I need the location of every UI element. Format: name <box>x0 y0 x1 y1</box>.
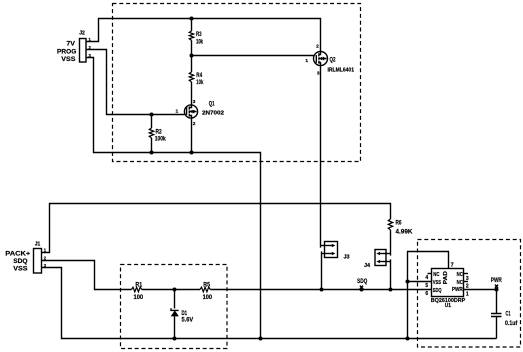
svg-text:PROG: PROG <box>57 48 76 55</box>
svg-text:R3: R3 <box>196 31 202 38</box>
wire D1 bottom <box>174 316 176 338</box>
svg-text:1: 1 <box>466 291 469 297</box>
resistor R3 <box>189 31 193 40</box>
svg-text:J4: J4 <box>364 263 371 269</box>
dashed box top section <box>113 4 361 162</box>
wire J2 pin3 to bottom rail to VSS drop <box>86 58 261 339</box>
wire R1 to R5 <box>142 289 200 291</box>
wire R2 bottom <box>151 138 153 153</box>
svg-text:4: 4 <box>425 275 428 281</box>
svg-text:PWR: PWR <box>491 277 502 284</box>
dashed box U1 section <box>418 240 521 348</box>
svg-text:D1: D1 <box>182 311 188 317</box>
svg-text:Q1: Q1 <box>209 102 215 108</box>
svg-text:7: 7 <box>451 262 454 268</box>
wire C1 to VSS bus <box>496 317 498 339</box>
svg-text:100: 100 <box>134 294 144 301</box>
wire U1 pin1 PWR to C1 <box>464 290 497 314</box>
resistor R5 <box>200 287 210 292</box>
svg-text:PACK+: PACK+ <box>5 250 30 257</box>
svg-text:5.6V: 5.6V <box>182 318 194 324</box>
connector J3 <box>321 242 338 258</box>
resistor R6 <box>388 219 392 230</box>
wire J1 pin2 to SDQ rail <box>42 261 132 290</box>
transistor Q1 <box>184 105 197 118</box>
svg-text:3: 3 <box>193 99 196 105</box>
svg-text:NC: NC <box>433 272 439 278</box>
diode D1 zener <box>171 308 179 316</box>
transistor Q2 <box>314 52 328 66</box>
resistor R4 <box>189 72 193 82</box>
svg-text:J3: J3 <box>344 255 350 261</box>
wire node to R4 <box>191 56 193 73</box>
svg-text:U1: U1 <box>445 303 451 309</box>
connector J4 <box>375 250 391 266</box>
node top bus R3 <box>190 17 194 21</box>
connector J1 <box>34 249 42 274</box>
resistor R2 <box>149 128 153 138</box>
node Q1 gate R2 <box>150 113 154 117</box>
wire D1 top <box>174 290 176 309</box>
U1 pin3 stub <box>464 273 469 275</box>
dashed box D1 section <box>121 265 228 349</box>
node J3 SDQ <box>320 288 324 292</box>
svg-text:1: 1 <box>176 108 179 114</box>
connector J2 <box>80 39 87 63</box>
svg-text:2: 2 <box>316 43 319 49</box>
wire U1 pin7 loop to VSS <box>408 252 449 339</box>
svg-text:NC: NC <box>457 280 463 286</box>
svg-text:R5: R5 <box>203 282 210 289</box>
svg-text:100k: 100k <box>155 136 166 143</box>
U1 pin2 stub <box>464 281 469 283</box>
svg-text:3: 3 <box>466 276 469 282</box>
svg-text:7V: 7V <box>66 40 75 47</box>
svg-text:Q2: Q2 <box>330 57 336 63</box>
node PWR <box>495 288 499 292</box>
wire J3 pin2 to SDQ bus <box>321 251 323 289</box>
svg-text:PAD: PAD <box>443 271 449 284</box>
node J4 SDQ <box>389 288 393 292</box>
svg-text:2: 2 <box>193 121 196 127</box>
svg-text:R6: R6 <box>396 220 402 227</box>
wire node to Q2 gate <box>192 55 314 57</box>
svg-text:J1: J1 <box>35 242 41 248</box>
svg-text:6: 6 <box>425 291 428 297</box>
node Q1 source rail <box>190 151 194 155</box>
svg-text:3: 3 <box>317 70 320 76</box>
capacitor C1 <box>491 314 502 317</box>
svg-text:10k: 10k <box>196 39 203 46</box>
svg-text:NC: NC <box>457 272 463 278</box>
IC U1 body <box>432 269 464 297</box>
svg-text:2: 2 <box>466 283 469 289</box>
wire J1 pin3 to VSS bus <box>42 268 497 339</box>
U1 pin4 stub <box>428 273 432 275</box>
wire Q2 source to J3 pin1 <box>320 66 322 248</box>
node rail VSS <box>259 337 263 341</box>
svg-text:4.99K: 4.99K <box>396 229 414 236</box>
net marker SDQ <box>360 286 363 289</box>
wire R4 to Q1 drain <box>191 82 193 105</box>
node SDQ label <box>360 288 364 292</box>
node R3 R4 gate <box>190 54 194 58</box>
svg-text:R4: R4 <box>196 72 202 79</box>
svg-text:10k: 10k <box>196 79 203 86</box>
svg-text:J2: J2 <box>79 31 85 37</box>
svg-text:1: 1 <box>305 58 308 64</box>
svg-text:VSS: VSS <box>13 265 28 272</box>
wire J2 pin2 to Q1 gate <box>86 50 184 115</box>
svg-text:100: 100 <box>203 294 213 301</box>
node D1 VSS <box>173 337 177 341</box>
svg-text:C1: C1 <box>506 312 511 318</box>
svg-text:R1: R1 <box>135 282 142 289</box>
wire J2 pin1 to top bus to Q2 drain <box>86 19 321 52</box>
svg-text:2N7002: 2N7002 <box>202 110 225 116</box>
svg-text:PWR: PWR <box>452 287 463 293</box>
node D1 SDQ <box>173 288 177 292</box>
svg-text:SDQ: SDQ <box>13 258 27 265</box>
svg-text:SDQ: SDQ <box>357 278 367 285</box>
wire SDQ bus to U1 pin6 <box>210 289 431 291</box>
node U1 VSS bus <box>406 337 410 341</box>
net marker PWR <box>495 285 498 288</box>
wire R6 to J4 pin1 <box>390 230 392 256</box>
wire R3 to node <box>191 40 193 55</box>
wire J4 pin2 to SDQ bus <box>390 259 392 289</box>
svg-text:VSS: VSS <box>433 280 442 286</box>
svg-text:5: 5 <box>425 283 428 289</box>
node VSS pin7 <box>406 280 410 284</box>
node R2 bottom rail <box>150 151 154 155</box>
svg-text:0.1uf: 0.1uf <box>505 321 518 327</box>
wire R3 top <box>191 19 193 32</box>
wire U1 pin5 VSS <box>408 281 432 283</box>
wire J1 pin1 PACK+ rail to R6 <box>42 204 391 253</box>
svg-text:R2: R2 <box>156 129 163 136</box>
svg-text:VSS: VSS <box>61 56 76 63</box>
resistor R1 <box>132 287 142 292</box>
wire R2 top <box>151 115 153 129</box>
svg-text:SDQ: SDQ <box>433 288 442 294</box>
svg-text:IRLML6401: IRLML6401 <box>328 67 355 73</box>
wire Q1 source <box>191 118 193 153</box>
